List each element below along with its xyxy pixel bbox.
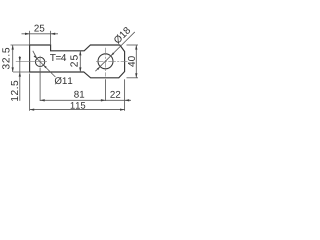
leader Ø11 chord and lower leader	[37, 59, 56, 78]
dim 25 top line	[22, 33, 59, 35]
extension left edge down	[29, 74, 31, 111]
dim 81 arrows	[40, 99, 105, 101]
dim 115 arrows	[30, 108, 125, 110]
dim 25 top arrows	[25, 33, 55, 35]
dim 25 vertical text	[70, 55, 77, 67]
dim 40 text	[128, 56, 135, 67]
extension small hole center down	[39, 68, 41, 101]
dim 25 top text	[34, 25, 44, 32]
dim 32.5 text	[2, 48, 9, 69]
centerline big hole vertical	[105, 48, 107, 77]
leader Ø11 arrow lower-right	[43, 65, 46, 68]
dim 81 text	[74, 91, 84, 98]
leader Ø11 arrow upper-left	[34, 55, 37, 58]
leader Ø18 arrow lower-left	[97, 67, 100, 70]
dim 32.5 arrows	[12, 45, 14, 72]
T=4 thickness label	[50, 54, 66, 61]
dim 12.5 arrows	[19, 57, 21, 77]
hole Ø11	[35, 57, 44, 66]
label Ø18 rotated	[113, 26, 131, 44]
dim 40 line	[135, 45, 137, 78]
leader Ø18 arrow upper-right	[111, 53, 114, 56]
extension big hole center down	[105, 79, 107, 101]
centerline small hole horizontal	[16, 61, 47, 63]
extension right edge down	[124, 79, 126, 111]
dim 12.5 text	[11, 81, 18, 101]
extension tab top to left	[11, 44, 30, 46]
extension bar bottom to left	[13, 71, 30, 73]
dim 25 vertical line at step	[79, 51, 81, 72]
centerline big hole horizontal	[96, 60, 128, 62]
leader Ø11 tail upper	[33, 51, 37, 59]
extension pad top right	[127, 44, 139, 46]
extension line step up	[50, 31, 52, 45]
leader Ø18 diagonal	[95, 32, 134, 71]
dim 40 arrows	[135, 45, 137, 78]
dim 115 text	[71, 102, 86, 109]
dim 25 vertical arrows	[79, 51, 81, 72]
centerline small hole vertical	[39, 56, 41, 68]
dim 115 line	[30, 109, 125, 111]
dim 12.5 line	[19, 56, 21, 101]
part outline (flat lug, top view)	[30, 45, 125, 78]
dim 81 line	[40, 99, 105, 101]
dim 22 right arrow	[125, 99, 130, 101]
extension pad bottom right	[127, 77, 139, 79]
dim 22 text	[110, 91, 120, 98]
dim 32.5 line	[12, 45, 14, 72]
hole Ø18	[98, 54, 113, 69]
label Ø11	[55, 77, 73, 84]
dim 22 line	[106, 99, 132, 101]
extension line left edge up	[29, 31, 31, 45]
